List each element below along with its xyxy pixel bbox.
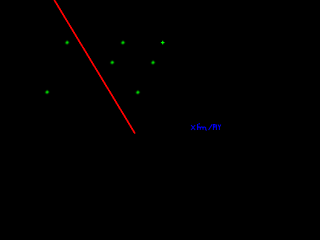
- slash: [209, 124, 213, 130]
- blue label bottom-right: [191, 123, 221, 130]
- green marker 2: [121, 41, 124, 44]
- green marker 6: [46, 90, 49, 93]
- word Am: [197, 124, 199, 130]
- green marker 4: [111, 61, 114, 64]
- green marker 3: [161, 41, 165, 45]
- green marker 5: [151, 61, 154, 64]
- red trajectory line: [54, 0, 135, 134]
- word P1Y: [213, 125, 215, 131]
- green marker 7: [136, 91, 139, 94]
- green marker 1: [66, 41, 69, 44]
- X glyph: [191, 125, 195, 130]
